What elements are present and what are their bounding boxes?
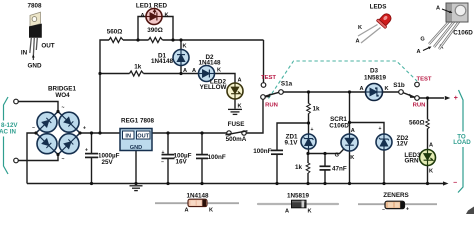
svg-text:ZENERS: ZENERS — [383, 192, 409, 199]
svg-text:GND: GND — [28, 63, 42, 70]
svg-text:25V: 25V — [102, 159, 114, 166]
svg-text:K: K — [429, 169, 433, 175]
svg-text:AC IN: AC IN — [0, 128, 16, 135]
svg-text:A: A — [183, 68, 187, 74]
svg-text:A: A — [355, 39, 359, 45]
svg-text:A: A — [436, 6, 440, 12]
svg-text:RUN: RUN — [413, 103, 426, 109]
svg-text:1k: 1k — [313, 106, 321, 113]
svg-text:1N5819: 1N5819 — [287, 192, 310, 199]
svg-text:7808: 7808 — [27, 3, 42, 10]
svg-text:FUSE: FUSE — [228, 121, 245, 128]
svg-text:WO4: WO4 — [55, 92, 70, 99]
svg-text:A: A — [285, 209, 289, 215]
svg-text:500mA: 500mA — [226, 136, 247, 143]
svg-text:1k: 1k — [295, 164, 303, 171]
svg-text:A: A — [359, 86, 363, 92]
svg-text:1N4148: 1N4148 — [151, 58, 174, 65]
svg-text:560Ω: 560Ω — [107, 29, 123, 36]
svg-text:1N5819: 1N5819 — [364, 75, 387, 82]
svg-text:GRN: GRN — [405, 158, 419, 165]
svg-text:RUN: RUN — [265, 103, 278, 109]
svg-text:+: + — [83, 126, 86, 132]
svg-text:LED1 RED: LED1 RED — [136, 3, 168, 10]
svg-text:S1b: S1b — [393, 82, 405, 89]
svg-text:–: – — [453, 180, 457, 187]
svg-text:K: K — [358, 25, 362, 31]
svg-text:–: – — [32, 125, 35, 131]
svg-text:TEST: TEST — [261, 75, 276, 81]
svg-text:G: G — [335, 153, 339, 159]
svg-text:K: K — [384, 86, 388, 92]
svg-text:–: – — [161, 160, 164, 166]
svg-text:D3: D3 — [370, 68, 379, 75]
svg-text:G: G — [420, 37, 424, 43]
svg-text:K: K — [237, 104, 241, 110]
svg-text:+: + — [454, 95, 458, 102]
svg-text:390Ω: 390Ω — [147, 27, 163, 34]
svg-text:+: + — [162, 150, 165, 156]
svg-text:+: + — [406, 207, 409, 213]
svg-text:16V: 16V — [176, 159, 188, 166]
svg-text:LEDS: LEDS — [370, 4, 387, 11]
svg-text:1k: 1k — [134, 64, 142, 71]
svg-text:K: K — [182, 44, 186, 50]
svg-text:+: + — [85, 148, 88, 154]
svg-text:A: A — [140, 13, 144, 19]
svg-text:K: K — [164, 13, 168, 19]
svg-text:IN: IN — [125, 133, 131, 139]
svg-text:K: K — [307, 209, 311, 215]
svg-text:YELLOW: YELLOW — [200, 84, 227, 91]
svg-text:~: ~ — [62, 105, 65, 111]
svg-text:1N4148: 1N4148 — [198, 60, 221, 67]
svg-text:OUT: OUT — [137, 133, 149, 139]
svg-text:100nF: 100nF — [253, 148, 271, 155]
svg-text:A: A — [416, 49, 420, 55]
svg-text:A: A — [184, 208, 188, 214]
svg-text:REG1 7808: REG1 7808 — [121, 118, 154, 125]
svg-text:~: ~ — [62, 157, 65, 163]
svg-text:12V: 12V — [397, 140, 409, 147]
svg-text:+: + — [379, 126, 382, 132]
svg-text:K: K — [350, 155, 354, 161]
svg-text:K: K — [209, 208, 213, 214]
svg-text:A: A — [237, 78, 241, 84]
svg-text:C106D: C106D — [329, 123, 349, 130]
svg-text:OUT: OUT — [41, 43, 54, 50]
svg-text:IN: IN — [21, 50, 28, 57]
svg-text:LOAD: LOAD — [453, 139, 471, 146]
svg-text:A: A — [192, 68, 196, 74]
svg-text:560Ω: 560Ω — [409, 120, 425, 127]
svg-text:A: A — [429, 143, 433, 149]
svg-text:100nF: 100nF — [208, 154, 226, 161]
svg-text:TEST: TEST — [416, 77, 431, 83]
svg-text:9.1V: 9.1V — [285, 140, 299, 147]
svg-text:C106D: C106D — [453, 30, 473, 37]
svg-text:47nF: 47nF — [332, 166, 347, 173]
svg-text:GND: GND — [130, 145, 142, 151]
svg-text:A: A — [351, 128, 355, 134]
svg-text:+: + — [311, 127, 314, 133]
svg-text:S1a: S1a — [281, 81, 293, 88]
svg-text:K: K — [217, 68, 221, 74]
